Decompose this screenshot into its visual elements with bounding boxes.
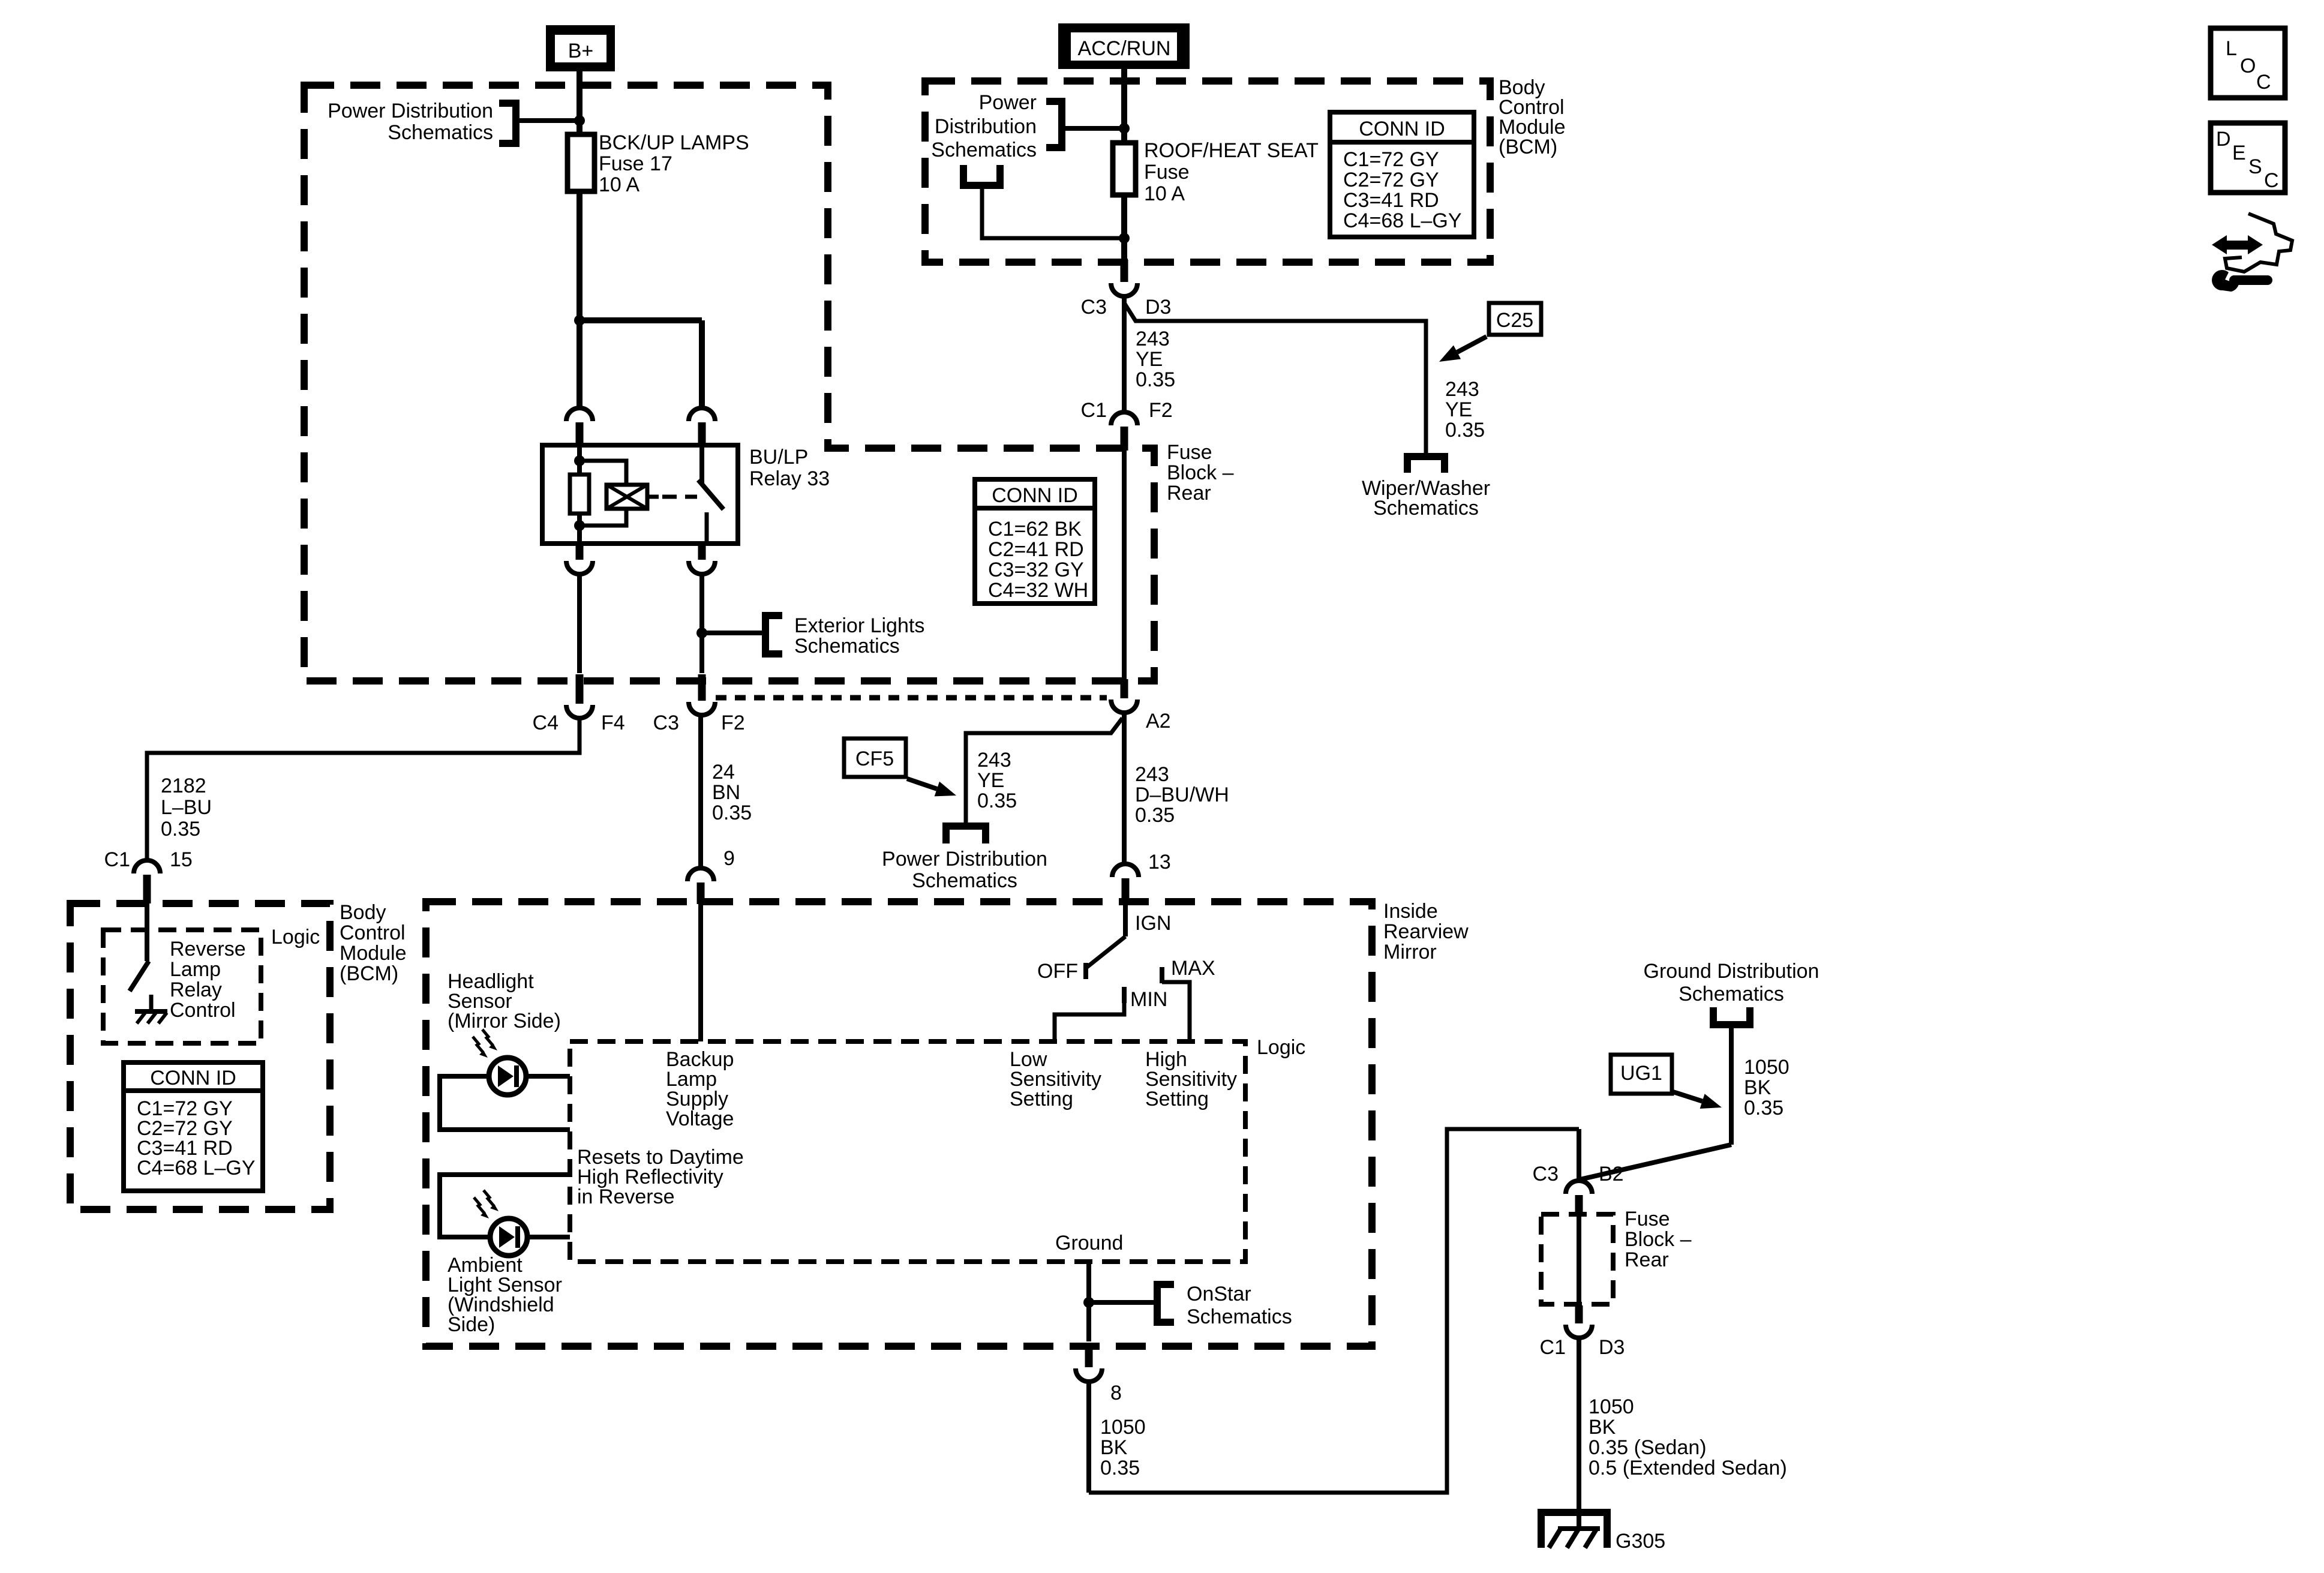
svg-text:C3: C3	[1533, 1163, 1559, 1185]
svg-text:Ground Distribution: Ground Distribution	[1644, 960, 1819, 983]
svg-text:D3: D3	[1599, 1336, 1625, 1359]
svg-text:BN: BN	[712, 781, 740, 804]
svg-text:A2: A2	[1146, 710, 1171, 733]
svg-text:2182: 2182	[161, 775, 206, 797]
svg-text:0.35: 0.35	[712, 801, 752, 824]
svg-text:S: S	[2248, 155, 2262, 178]
svg-text:Rear: Rear	[1625, 1248, 1669, 1271]
svg-text:BCK/UP LAMPS: BCK/UP LAMPS	[599, 131, 749, 154]
svg-text:Power: Power	[979, 91, 1037, 114]
svg-text:Schematics: Schematics	[931, 139, 1037, 161]
svg-text:243: 243	[1135, 763, 1169, 786]
svg-text:Logic: Logic	[271, 926, 320, 948]
svg-text:Setting: Setting	[1010, 1088, 1073, 1110]
svg-text:OnStar: OnStar	[1187, 1283, 1251, 1305]
svg-text:Inside: Inside	[1383, 900, 1438, 923]
svg-text:Relay: Relay	[170, 978, 222, 1001]
svg-text:OFF: OFF	[1037, 960, 1078, 983]
svg-text:C1=62 BK: C1=62 BK	[988, 518, 1082, 541]
svg-text:C4=68 L–GY: C4=68 L–GY	[137, 1157, 256, 1179]
svg-text:C25: C25	[1496, 309, 1533, 332]
svg-text:8: 8	[1110, 1382, 1122, 1404]
svg-text:Fuse: Fuse	[1625, 1208, 1670, 1230]
svg-text:13: 13	[1148, 851, 1171, 873]
svg-text:Fuse 17: Fuse 17	[599, 152, 672, 175]
svg-text:D–BU/WH: D–BU/WH	[1135, 784, 1229, 806]
svg-text:C2=72 GY: C2=72 GY	[1343, 169, 1439, 191]
svg-text:Reverse: Reverse	[170, 938, 246, 960]
svg-text:UG1: UG1	[1620, 1062, 1662, 1085]
svg-text:Schematics: Schematics	[1679, 983, 1784, 1005]
svg-text:0.5 (Extended Sedan): 0.5 (Extended Sedan)	[1589, 1457, 1787, 1479]
svg-text:243: 243	[977, 749, 1011, 772]
svg-text:Rear: Rear	[1167, 482, 1211, 505]
svg-text:Mirror: Mirror	[1383, 941, 1437, 963]
svg-text:243: 243	[1136, 328, 1170, 350]
svg-text:C4=32 WH: C4=32 WH	[988, 579, 1088, 602]
svg-text:Distribution: Distribution	[935, 115, 1037, 138]
svg-text:B+: B+	[568, 40, 594, 62]
svg-text:Fuse: Fuse	[1167, 441, 1212, 464]
svg-text:C: C	[2264, 169, 2279, 192]
svg-text:Logic: Logic	[1257, 1036, 1305, 1059]
svg-text:243: 243	[1445, 378, 1479, 401]
svg-text:YE: YE	[977, 769, 1004, 792]
svg-text:0.35: 0.35	[161, 818, 200, 840]
svg-text:0.35: 0.35	[1136, 368, 1175, 391]
svg-text:Side): Side)	[448, 1313, 495, 1336]
svg-text:F4: F4	[601, 712, 625, 734]
svg-text:C3: C3	[1081, 296, 1107, 319]
svg-text:BK: BK	[1744, 1076, 1771, 1099]
svg-text:F2: F2	[1149, 399, 1173, 422]
svg-text:Schematics: Schematics	[794, 635, 900, 658]
svg-text:24: 24	[712, 761, 735, 784]
svg-text:C3=32 GY: C3=32 GY	[988, 559, 1084, 581]
svg-text:BK: BK	[1589, 1416, 1616, 1439]
svg-text:C3=41 RD: C3=41 RD	[1343, 189, 1439, 212]
svg-text:F2: F2	[721, 712, 745, 734]
svg-text:Schematics: Schematics	[388, 121, 493, 144]
svg-text:Control: Control	[340, 921, 406, 944]
svg-text:Block –: Block –	[1167, 461, 1234, 484]
svg-text:9: 9	[723, 847, 735, 870]
svg-text:C3: C3	[653, 712, 679, 734]
svg-text:0.35: 0.35	[1100, 1457, 1140, 1479]
svg-text:Schematics: Schematics	[1373, 497, 1479, 520]
svg-text:Fuse: Fuse	[1144, 161, 1190, 184]
svg-text:Ground: Ground	[1055, 1232, 1123, 1254]
svg-text:D3: D3	[1145, 296, 1171, 319]
svg-text:C1: C1	[1081, 399, 1107, 422]
svg-text:C: C	[2256, 71, 2271, 94]
svg-text:Control: Control	[170, 999, 236, 1022]
svg-text:E: E	[2232, 142, 2246, 164]
svg-text:MIN: MIN	[1130, 988, 1167, 1011]
svg-text:Exterior Lights: Exterior Lights	[794, 614, 924, 637]
svg-text:L–BU: L–BU	[161, 796, 212, 819]
svg-text:C1=72 GY: C1=72 GY	[1343, 148, 1439, 171]
svg-text:G305: G305	[1616, 1530, 1665, 1553]
svg-text:B2: B2	[1599, 1163, 1624, 1185]
svg-text:Schematics: Schematics	[1187, 1305, 1292, 1328]
svg-text:(BCM): (BCM)	[1499, 136, 1557, 158]
svg-text:CONN ID: CONN ID	[1359, 118, 1445, 140]
svg-text:(BCM): (BCM)	[340, 962, 398, 985]
svg-text:Relay 33: Relay 33	[749, 467, 830, 490]
svg-text:YE: YE	[1445, 398, 1472, 421]
svg-text:O: O	[2240, 55, 2256, 77]
svg-text:MAX: MAX	[1171, 957, 1215, 980]
svg-text:CONN ID: CONN ID	[150, 1067, 236, 1089]
svg-text:in Reverse: in Reverse	[577, 1185, 675, 1208]
svg-text:0.35: 0.35	[1744, 1097, 1783, 1119]
svg-text:Rearview: Rearview	[1383, 920, 1469, 943]
svg-text:Voltage: Voltage	[666, 1107, 734, 1130]
svg-text:Lamp: Lamp	[170, 958, 221, 981]
svg-text:Power Distribution: Power Distribution	[882, 848, 1047, 870]
svg-text:ROOF/HEAT SEAT: ROOF/HEAT SEAT	[1144, 139, 1319, 162]
svg-text:0.35: 0.35	[1445, 419, 1485, 442]
svg-text:ACC/RUN: ACC/RUN	[1078, 37, 1171, 60]
svg-text:10 A: 10 A	[599, 173, 639, 196]
svg-text:L: L	[2226, 37, 2237, 60]
svg-text:Setting: Setting	[1145, 1088, 1209, 1110]
svg-text:0.35 (Sedan): 0.35 (Sedan)	[1589, 1436, 1707, 1459]
svg-text:C2=41 RD: C2=41 RD	[988, 538, 1084, 561]
svg-text:0.35: 0.35	[1135, 804, 1175, 827]
svg-text:C1: C1	[104, 848, 130, 871]
svg-text:BU/LP: BU/LP	[749, 446, 808, 469]
svg-text:Body: Body	[340, 901, 386, 924]
svg-text:C1: C1	[1540, 1336, 1566, 1359]
svg-text:C4=68 L–GY: C4=68 L–GY	[1343, 209, 1462, 232]
svg-text:BK: BK	[1100, 1436, 1128, 1459]
svg-text:15: 15	[170, 848, 193, 871]
svg-text:CONN ID: CONN ID	[992, 484, 1078, 507]
svg-text:1050: 1050	[1744, 1056, 1789, 1079]
svg-text:Block –: Block –	[1625, 1228, 1692, 1251]
svg-text:1050: 1050	[1589, 1395, 1634, 1418]
svg-text:CF5: CF5	[855, 748, 894, 770]
svg-text:(Mirror Side): (Mirror Side)	[448, 1010, 561, 1032]
svg-text:C4: C4	[533, 712, 559, 734]
svg-text:10 A: 10 A	[1144, 182, 1185, 205]
svg-text:Power Distribution: Power Distribution	[328, 100, 493, 122]
svg-text:0.35: 0.35	[977, 789, 1017, 812]
svg-text:1050: 1050	[1100, 1416, 1146, 1439]
svg-text:D: D	[2216, 128, 2231, 151]
svg-text:YE: YE	[1136, 348, 1163, 371]
svg-text:Module: Module	[340, 942, 407, 965]
svg-text:IGN: IGN	[1135, 912, 1171, 935]
svg-text:Schematics: Schematics	[912, 869, 1017, 892]
